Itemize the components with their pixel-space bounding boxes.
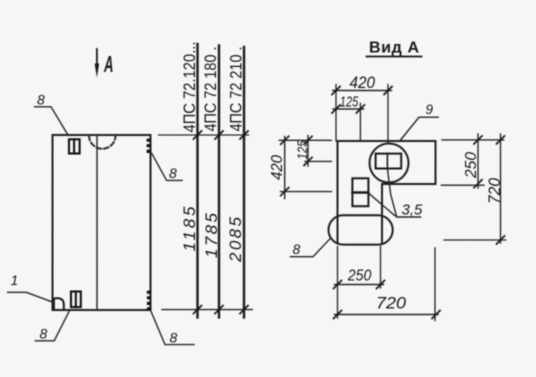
top extension line of variant stack xyxy=(159,134,249,136)
label 8 top-right leader xyxy=(152,153,182,180)
panel outline xyxy=(53,135,151,310)
variant line 4ПС 72.210 xyxy=(243,47,245,317)
top dim 125: dim line xyxy=(333,108,364,110)
stadium slot (pos.8) xyxy=(329,215,393,244)
bottom dim 720: ticks xyxy=(334,311,441,319)
corner detail pos.1 xyxy=(54,298,64,310)
label 1 leader xyxy=(8,292,52,302)
ticks at variant line ends xyxy=(194,131,249,314)
dashed edge mark top-right (pos.8) xyxy=(147,139,151,153)
left dim 420: ticks xyxy=(281,136,289,195)
title underline xyxy=(367,56,422,58)
circle (loop hole pos.9) xyxy=(370,144,409,183)
left dim 125: ticks xyxy=(304,136,312,165)
anchor mark bottom-left (pos.8) xyxy=(71,292,81,308)
left dims: ext lines xyxy=(279,139,331,141)
leader from plate divider to 3,5 xyxy=(387,169,396,217)
view arrow A head xyxy=(95,64,100,78)
bottom dim 250: ticks xyxy=(334,281,385,289)
bottom dims: ext lines xyxy=(337,247,339,319)
right dim 250: dim line xyxy=(477,134,479,188)
label 8 leader xyxy=(291,238,332,257)
dashed arc (hole) on top edge xyxy=(89,136,116,149)
bottom extension line of variant stack xyxy=(162,309,252,311)
plate divider xyxy=(386,154,388,169)
small rect divider xyxy=(352,191,368,193)
label 8 bottom-right leader xyxy=(151,311,194,345)
dashed edge mark bottom-right (pos.8) xyxy=(147,291,151,310)
label 8 top-left leader xyxy=(35,107,69,136)
bottom dim 250: dim line xyxy=(335,284,384,286)
top dim 420: ticks xyxy=(332,87,392,95)
top dim 125: ext line xyxy=(359,104,361,142)
right dims: ext lines xyxy=(442,139,504,141)
right dim 720: dim line xyxy=(500,134,502,243)
top dim 420: dim line xyxy=(333,90,392,92)
view arrow A shaft xyxy=(96,49,98,71)
L-shape outline xyxy=(338,141,436,244)
panel inner joint line xyxy=(96,135,98,310)
top dim 125: ticks xyxy=(332,105,364,113)
right dim 250: ticks xyxy=(474,136,482,188)
bottom dim 720: dim line xyxy=(335,314,439,316)
leader from small rect to 3,5 xyxy=(368,193,395,216)
label 3,5 underline xyxy=(397,216,421,218)
variant line 4ПС 72.180 xyxy=(218,46,220,318)
plate in circle xyxy=(376,154,402,169)
right dim 720: ticks xyxy=(497,136,505,244)
label 9 leader xyxy=(400,117,439,141)
left dim 420: dim line xyxy=(284,137,286,199)
anchor mark top-left (pos.8) xyxy=(69,139,80,153)
top dim 420: ext lines xyxy=(335,85,337,142)
variant line 4ПС 72.120 xyxy=(196,44,198,317)
left dim 125: dim line xyxy=(307,136,309,166)
small rect detail xyxy=(352,178,368,206)
label 8 bottom-left leader xyxy=(35,311,69,341)
